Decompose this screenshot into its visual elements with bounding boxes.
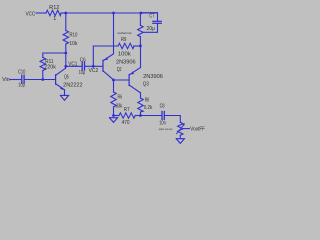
svg-text:Q2: Q2	[117, 67, 122, 73]
wire node B down to VC1	[65, 53, 67, 66]
svg-text:2N3906: 2N3906	[116, 60, 136, 66]
svg-text:2N2222: 2N2222	[63, 83, 82, 89]
svg-text:10n: 10n	[159, 120, 166, 126]
svg-text:R10: R10	[69, 33, 77, 39]
svg-text:20μ: 20μ	[147, 26, 156, 32]
node VoutFF label	[190, 126, 205, 132]
svg-text:10k: 10k	[69, 41, 77, 47]
node Q2 collector dot	[112, 79, 115, 82]
wire load to ground	[179, 135, 181, 138]
transistor Q5	[55, 75, 57, 84]
capacitor C6	[81, 62, 83, 70]
ground below Q5	[60, 95, 68, 100]
resistor R8	[140, 93, 142, 98]
svg-text:Q5: Q5	[64, 74, 69, 80]
resistor R11	[40, 58, 45, 71]
capacitor C8	[161, 112, 163, 120]
node Vin label	[2, 77, 10, 83]
resistor R6	[113, 80, 115, 92]
wire C10 to Q5 base	[24, 79, 55, 81]
node rail-Q2 dot	[112, 12, 115, 15]
wire VCC to R12	[36, 12, 46, 14]
svg-text:10μ: 10μ	[79, 70, 85, 76]
svg-text:VC2: VC2	[89, 68, 99, 74]
wire R11 to base node	[42, 71, 44, 80]
svg-text:10μ: 10μ	[18, 82, 24, 88]
wire top rail	[66, 12, 158, 14]
svg-text:1: 1	[53, 16, 56, 22]
svg-text:feedback bias: feedback bias	[118, 31, 132, 35]
wire Q2 collector to Q3 base	[114, 79, 129, 81]
node base junction dot	[41, 78, 44, 81]
svg-text:R7: R7	[124, 107, 130, 113]
transistor Q2	[102, 60, 104, 71]
node VC1 junction dot	[64, 65, 67, 68]
wire C6 to VC2	[85, 65, 103, 67]
svg-text:R8: R8	[145, 98, 149, 104]
capacitor C7 branch	[140, 13, 157, 21]
wire VC2 up to R9	[93, 46, 118, 66]
node A junction dot	[64, 12, 67, 15]
wire R10 to node B	[65, 44, 67, 53]
svg-text:C7: C7	[149, 14, 154, 20]
svg-text:33k: 33k	[116, 103, 123, 109]
svg-text:R12: R12	[49, 5, 59, 11]
resistor R12	[46, 10, 61, 15]
potentiometer load (small label)	[178, 122, 183, 135]
svg-text:220k: 220k	[44, 64, 56, 70]
svg-text:100k: 100k	[118, 52, 131, 58]
node B junction dot	[64, 52, 67, 55]
node R8 bottom junction dot	[139, 114, 142, 117]
ground below R6	[109, 118, 117, 123]
wire R12 to node A	[61, 12, 66, 14]
node rail-R5 dot	[140, 12, 143, 15]
node VC2 label	[89, 68, 99, 74]
svg-text:R6: R6	[118, 95, 123, 101]
svg-text:VoutFF: VoutFF	[190, 126, 205, 132]
node C junction dot	[139, 45, 142, 48]
wire R7 node to C8	[141, 115, 162, 117]
svg-text:wiper pos set: wiper pos set	[159, 127, 173, 131]
wire node A down to R10	[65, 13, 67, 31]
svg-text:Q3: Q3	[143, 82, 149, 88]
wire C8 to load	[164, 116, 180, 123]
svg-text:VCC: VCC	[26, 11, 36, 17]
node VC1 label	[68, 62, 77, 68]
svg-text:0.2k: 0.2k	[144, 105, 153, 111]
svg-text:R9: R9	[121, 37, 126, 43]
wire Vin to C10	[10, 79, 21, 81]
resistor R10	[63, 31, 68, 45]
wire R9 to node C	[134, 45, 140, 47]
wire node B left to R11	[43, 53, 66, 58]
node VCC label	[26, 11, 36, 17]
svg-text:Vin: Vin	[2, 77, 10, 83]
node VC2 junction dot	[92, 65, 95, 68]
resistor R9	[118, 43, 134, 48]
transistor Q3	[128, 75, 130, 86]
svg-text:2N3906: 2N3906	[143, 74, 163, 80]
ground below load	[176, 139, 184, 144]
svg-text:470: 470	[122, 120, 130, 126]
svg-text:C6: C6	[80, 57, 86, 63]
capacitor C10	[21, 75, 23, 83]
node R6 bottom junction dot	[112, 114, 115, 117]
resistor R7	[114, 115, 120, 117]
svg-text:C10: C10	[18, 69, 25, 75]
wire VC1 to C6	[66, 65, 82, 67]
svg-text:C8: C8	[160, 103, 165, 109]
resistor R5 (small label)	[139, 13, 141, 25]
